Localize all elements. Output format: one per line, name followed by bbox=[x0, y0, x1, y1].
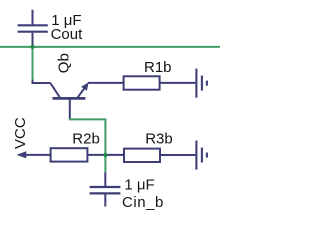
wire: base net from transistor base down to R2b/R3b node bbox=[69, 119, 106, 172]
label: Qb (rotated) bbox=[55, 53, 72, 73]
resistor R3b bbox=[124, 149, 160, 162]
label: R2b bbox=[72, 131, 100, 148]
node: junction dot at R2b/R3b/base net bbox=[103, 153, 107, 157]
wire: collector corner into transistor bbox=[33, 80, 51, 84]
label: R1b bbox=[144, 59, 172, 76]
wire: R2b to node to R3b bbox=[87, 154, 124, 156]
capacitor C? Cout (1 uF) bbox=[18, 10, 48, 47]
label: Cin_b bbox=[122, 194, 164, 211]
svg-text:R2b: R2b bbox=[72, 131, 100, 148]
capacitor Cin_b (1 uF) bbox=[90, 172, 121, 206]
svg-text:1 μF: 1 μF bbox=[124, 177, 154, 194]
wire: vertical net from rail down to transistor collector wire bbox=[32, 47, 34, 81]
transistor Q1 Qb (BJT) bbox=[50, 82, 88, 118]
label: VCC (rotated) bbox=[12, 117, 29, 149]
svg-text:R1b: R1b bbox=[144, 59, 172, 76]
label: 1 uF (Cout value) bbox=[51, 12, 81, 29]
label: Cout bbox=[51, 26, 84, 43]
ground (right of R1b) bbox=[196, 69, 207, 98]
svg-text:Cout: Cout bbox=[51, 26, 84, 43]
svg-text:VCC: VCC bbox=[12, 117, 29, 149]
label: R3b bbox=[145, 130, 173, 147]
wire: top horizontal net rail bbox=[0, 46, 220, 48]
wire: VCC arrow to R2b bbox=[16, 151, 50, 158]
wire: R1b to ground bbox=[160, 82, 196, 84]
node: junction dot at Cout / rail bbox=[30, 45, 34, 49]
resistor R1b bbox=[124, 76, 160, 89]
svg-text:Qb: Qb bbox=[55, 53, 72, 73]
label: 1 uF (Cin_b value) bbox=[124, 177, 154, 194]
wire: emitter to R1b bbox=[88, 82, 124, 84]
svg-text:R3b: R3b bbox=[145, 130, 173, 147]
wire: R3b to ground bbox=[160, 154, 195, 156]
resistor R2b bbox=[51, 148, 88, 161]
ground (right of R3b) bbox=[196, 141, 207, 170]
svg-text:Cin_b: Cin_b bbox=[122, 194, 164, 211]
